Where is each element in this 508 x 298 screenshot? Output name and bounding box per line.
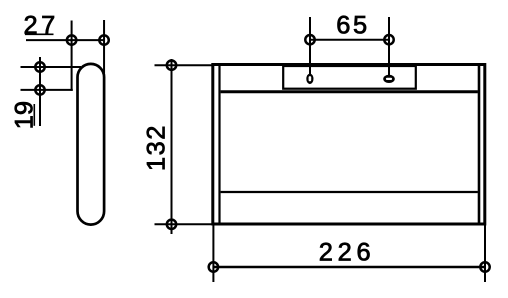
svg-text:65: 65 xyxy=(336,11,369,39)
svg-text:132: 132 xyxy=(143,124,171,171)
svg-text:27: 27 xyxy=(24,11,59,39)
svg-text:226: 226 xyxy=(319,238,376,266)
